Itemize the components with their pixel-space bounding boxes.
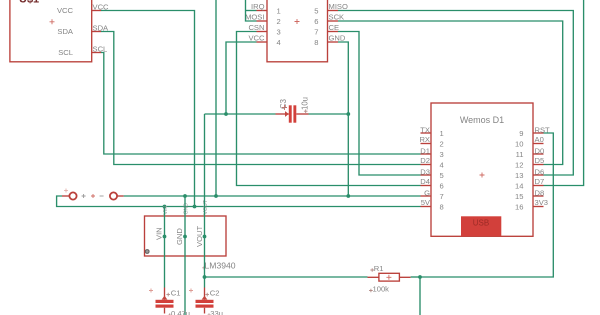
svg-text:GND: GND xyxy=(329,34,346,43)
pin R1 left xyxy=(368,276,379,278)
wire VIN down to C1 xyxy=(164,207,166,288)
pin dot VIN xyxy=(163,235,167,239)
svg-text:GND: GND xyxy=(183,203,189,215)
svg-text:12: 12 xyxy=(515,160,523,169)
svg-text:5V: 5V xyxy=(421,198,431,207)
svg-text:0.47u: 0.47u xyxy=(171,309,190,315)
svg-text:14: 14 xyxy=(515,181,523,190)
pins Wemos right xyxy=(533,133,544,207)
svg-text:VOUT: VOUT xyxy=(195,226,204,247)
origin cross battery xyxy=(64,189,68,193)
svg-text:1: 1 xyxy=(277,6,281,15)
wire CSN to D4 xyxy=(237,32,421,186)
origin cross U1 xyxy=(50,19,55,24)
junction GND2-rail xyxy=(346,194,350,198)
svg-text:VCC: VCC xyxy=(248,34,265,43)
regulator LM3940 box xyxy=(145,216,227,256)
wire battery- GND rail xyxy=(124,195,421,197)
svg-text:8: 8 xyxy=(440,202,444,211)
wire R1 node down xyxy=(419,277,421,315)
svg-text:SCK: SCK xyxy=(329,13,345,22)
battery pin 2 xyxy=(110,192,124,199)
svg-text:LM3940: LM3940 xyxy=(205,261,236,271)
svg-text:7: 7 xyxy=(440,192,444,201)
junction VOUT-R1 row xyxy=(203,275,207,279)
wire VCC U1 to 5V rail xyxy=(101,11,195,207)
svg-text:USB: USB xyxy=(473,219,489,228)
svg-text:SDA: SDA xyxy=(57,27,74,36)
wire 3V3 to C3 left xyxy=(205,113,276,115)
pin SCK xyxy=(328,20,339,22)
svg-text:7: 7 xyxy=(314,27,318,36)
pin U1 SDA xyxy=(92,31,102,33)
pins Wemos left xyxy=(421,133,432,207)
pin GND2 xyxy=(328,41,339,43)
svg-text:GND: GND xyxy=(175,228,184,245)
pin CE xyxy=(328,31,339,33)
wire GND down xyxy=(184,196,186,315)
svg-text:10u: 10u xyxy=(301,97,310,110)
text origin marks xyxy=(166,293,170,297)
svg-text:Wemos D1: Wemos D1 xyxy=(460,115,504,125)
capacitor C2 xyxy=(189,288,223,315)
labels Wemos left xyxy=(419,126,430,208)
svg-text:D4: D4 xyxy=(420,177,430,186)
pin VCC2 xyxy=(257,41,268,43)
svg-text:15: 15 xyxy=(515,192,523,201)
svg-text:C1: C1 xyxy=(171,288,181,297)
minus mark gray xyxy=(100,195,104,197)
svg-text:VIN: VIN xyxy=(163,206,169,215)
svg-text:D1: D1 xyxy=(420,147,430,156)
svg-text:VIN: VIN xyxy=(155,227,164,240)
svg-text:8: 8 xyxy=(314,38,318,47)
wire SCK to D5 xyxy=(338,21,563,165)
svg-text:13: 13 xyxy=(515,171,523,180)
Wemos D1 box xyxy=(431,103,533,236)
wire GND from top xyxy=(215,0,217,196)
wire 3V3 to R1 xyxy=(205,276,368,278)
svg-text:R1: R1 xyxy=(374,264,384,273)
svg-text:3: 3 xyxy=(440,150,444,159)
svg-text:CE: CE xyxy=(329,23,340,32)
svg-text:9: 9 xyxy=(519,129,523,138)
wire MOSI up offscreen xyxy=(246,0,257,21)
svg-text:3V3: 3V3 xyxy=(535,198,549,207)
svg-text:33u: 33u xyxy=(210,309,223,315)
resistor R1 xyxy=(373,264,400,294)
pin IRQ xyxy=(257,10,268,12)
svg-text:D8: D8 xyxy=(535,189,545,198)
pin U1 VCC xyxy=(92,10,102,12)
svg-text:2: 2 xyxy=(440,139,444,148)
svg-text:VOUT: VOUT xyxy=(203,199,209,214)
USB block xyxy=(461,216,501,236)
pin CSN xyxy=(257,31,268,33)
wire R1 right node xyxy=(411,276,420,278)
pin dot VOUT xyxy=(203,235,207,239)
svg-text:SCL: SCL xyxy=(58,48,73,57)
wire IRQ up xyxy=(246,10,257,12)
svg-text:G: G xyxy=(424,189,430,198)
nRF24 module box xyxy=(267,0,328,62)
junction GND2-C3right xyxy=(346,112,350,116)
wire MISO to D6 xyxy=(338,11,573,176)
svg-text:C3: C3 xyxy=(279,99,288,109)
labels Wemos right xyxy=(535,126,551,208)
svg-text:D5: D5 xyxy=(535,156,545,165)
svg-text:CSN: CSN xyxy=(248,23,264,32)
svg-text:U$1: U$1 xyxy=(19,0,39,6)
svg-text:A0: A0 xyxy=(535,135,544,144)
svg-text:1: 1 xyxy=(440,129,444,138)
svg-text:4: 4 xyxy=(277,38,281,47)
wire VCC2 to 3V3 net xyxy=(226,42,257,114)
wire RST to R1 xyxy=(420,133,553,277)
plus mark gray xyxy=(82,194,86,198)
pin MOSI xyxy=(257,20,268,22)
capacitor C1 xyxy=(149,288,190,315)
svg-text:MOSI: MOSI xyxy=(245,13,264,22)
wire CE to D3 xyxy=(338,32,421,176)
svg-text:SCL: SCL xyxy=(93,45,108,54)
wire D7 from top xyxy=(544,0,584,186)
junction VCC2-C3 xyxy=(224,112,228,116)
svg-text:VCC: VCC xyxy=(57,6,74,15)
svg-text:6: 6 xyxy=(314,17,318,26)
svg-text:D6: D6 xyxy=(535,168,545,177)
junction U1VCC-5V xyxy=(193,205,197,209)
origin cross Wemos xyxy=(480,173,485,178)
pin dot GND xyxy=(183,235,187,239)
svg-text:IRQ: IRQ xyxy=(251,2,265,11)
svg-text:5: 5 xyxy=(314,6,318,15)
pin U1 SCL xyxy=(92,52,102,54)
svg-text:TX: TX xyxy=(420,126,430,135)
svg-text:11: 11 xyxy=(516,150,524,159)
wire VOUT 3V3 vertical xyxy=(204,114,206,288)
sensor U1 box xyxy=(10,0,92,62)
svg-text:D2: D2 xyxy=(420,156,430,165)
svg-text:2: 2 xyxy=(277,17,281,26)
svg-text:10: 10 xyxy=(515,139,523,148)
svg-text:5: 5 xyxy=(440,171,444,180)
svg-text:D3: D3 xyxy=(420,168,430,177)
svg-text:C2: C2 xyxy=(210,288,220,297)
junction GNDtop-rail xyxy=(214,194,218,198)
wire battery+ to 5V rail xyxy=(57,196,421,207)
svg-text:100k: 100k xyxy=(373,284,390,293)
plus mark red xyxy=(91,194,95,198)
wire C3 right to GND xyxy=(309,113,349,115)
svg-text:16: 16 xyxy=(515,202,523,211)
pin MISO xyxy=(328,10,339,12)
junction R1 node xyxy=(418,275,422,279)
pin R1 right xyxy=(399,276,410,278)
wire SCL to D1 xyxy=(101,53,421,155)
svg-text:3: 3 xyxy=(277,27,281,36)
wire GND2 down xyxy=(338,42,348,196)
capacitor C3 xyxy=(276,97,310,123)
svg-text:D0: D0 xyxy=(535,147,545,156)
junction LMGND-rail xyxy=(183,194,187,198)
svg-text:D7: D7 xyxy=(535,177,545,186)
svg-text:4: 4 xyxy=(440,160,444,169)
battery pin 1 xyxy=(62,192,77,199)
wire SDA to D2 xyxy=(101,32,421,165)
svg-text:MISO: MISO xyxy=(329,2,349,11)
junction VIN-5V xyxy=(163,205,167,209)
svg-text:RX: RX xyxy=(419,135,430,144)
svg-text:6: 6 xyxy=(440,181,444,190)
origin cross nRF xyxy=(295,19,300,24)
